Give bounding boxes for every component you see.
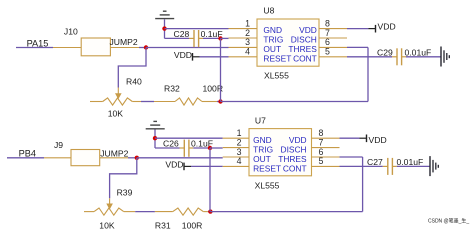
resistor R31 body <box>155 208 208 215</box>
svg-text:R31: R31 <box>155 221 171 229</box>
wire R32 to node B <box>217 101 221 103</box>
junction node D <box>218 36 222 40</box>
power VDD4 <box>165 160 191 171</box>
svg-text:0.01uF: 0.01uF <box>397 157 424 167</box>
svg-text:0.01uF: 0.01uF <box>405 47 432 57</box>
wire GND1 to node C and C28 <box>164 19 166 38</box>
svg-text:CONT: CONT <box>283 163 307 173</box>
wire U7 pin6 stub <box>340 156 363 158</box>
U7 pin 3 <box>223 147 249 157</box>
junction node G <box>153 136 157 140</box>
svg-text:10K: 10K <box>108 108 124 118</box>
ic U8 body <box>257 19 319 66</box>
wire node E to U7 pin3 <box>137 157 223 159</box>
ground GND2 <box>441 47 449 67</box>
svg-text:XL555: XL555 <box>264 71 289 81</box>
wire node D to U8 pin2 <box>221 37 229 39</box>
wire C29 to GND2 <box>406 56 441 58</box>
wire node G to U7 pin1 <box>155 137 223 139</box>
svg-text:XL555: XL555 <box>255 180 280 190</box>
junction node C <box>162 26 166 30</box>
U7 pin 4 <box>223 156 249 166</box>
resistor R32 body <box>154 98 217 105</box>
U8 pin 3 <box>229 37 258 47</box>
wire node A to U8 pin3 <box>146 47 229 49</box>
wire U8 pin6 stub <box>347 46 368 48</box>
wire J10 right lead <box>110 47 139 49</box>
svg-text:VDD: VDD <box>165 160 183 170</box>
svg-text:VDD: VDD <box>174 50 192 60</box>
wire J9 right lead <box>100 157 128 159</box>
svg-text:R39: R39 <box>117 188 133 198</box>
wire node H down to node F <box>209 148 211 212</box>
wire node D down to node B <box>220 38 222 101</box>
svg-text:U8: U8 <box>263 5 274 15</box>
capacitor C28 body <box>189 30 203 47</box>
wire node H to U7 pin2 <box>210 147 223 149</box>
U7 pin 2 <box>223 137 249 147</box>
svg-text:U7: U7 <box>255 115 266 125</box>
wire node B to THRES return <box>221 101 369 103</box>
U7 pin 6 <box>312 147 340 157</box>
U8 pin 6 <box>319 37 347 47</box>
wire R31 to node F <box>208 211 211 213</box>
junction node A <box>144 45 148 49</box>
svg-text:RESET: RESET <box>253 163 281 173</box>
svg-text:PB4: PB4 <box>19 149 36 159</box>
svg-text:100R: 100R <box>182 221 203 229</box>
svg-text:J10: J10 <box>64 27 78 37</box>
wire node A to R40 wiper <box>118 48 146 88</box>
U8 pin 1 <box>229 18 258 28</box>
wire J10 lead to node A <box>139 47 146 49</box>
U7 pin 8 <box>312 128 340 138</box>
power VDD3 <box>360 135 387 145</box>
svg-text:VDD: VDD <box>378 21 396 31</box>
wire C27 to GND4 <box>397 165 430 167</box>
svg-text:C28: C28 <box>174 29 190 39</box>
capacitor C26 body <box>180 140 194 157</box>
connector J10 body <box>81 38 110 56</box>
ground GND4 <box>430 156 438 176</box>
svg-text:5: 5 <box>325 47 330 57</box>
svg-text:C29: C29 <box>377 47 393 57</box>
wire J10 left lead <box>53 47 81 49</box>
potentiometer R39 body <box>84 208 135 215</box>
wire J9 left lead <box>44 157 71 159</box>
svg-text:JUMP2: JUMP2 <box>110 37 138 47</box>
U7 pin 5 <box>312 156 340 166</box>
junction node E <box>135 156 139 160</box>
junction node H <box>208 146 212 150</box>
potentiometer R40 wiper arrow <box>115 88 122 100</box>
svg-text:JUMP2: JUMP2 <box>100 148 128 158</box>
svg-text:CSDN @笔墨_生_: CSDN @笔墨_生_ <box>428 218 469 225</box>
wire C26 to node H <box>193 147 210 149</box>
wire R39 to R31 <box>135 211 155 213</box>
wire U8 pin8 to VDD1 <box>347 28 368 30</box>
wire node F to THRES return <box>210 211 362 213</box>
wire VDD2 to U8 pin4 <box>200 56 229 58</box>
svg-text:J9: J9 <box>54 140 63 150</box>
U8 pin 2 <box>229 28 258 38</box>
wire PB4 stub <box>7 157 44 159</box>
wire U7 pin5 to C27 <box>340 165 383 167</box>
wire VDD4 to U7 pin4 <box>191 165 223 167</box>
wire THRES vertical <box>367 47 369 101</box>
ground GND1 <box>155 11 174 18</box>
wire PA15 stub <box>16 47 53 49</box>
U8 pin 7 <box>319 28 347 38</box>
wire J9 lead to node E <box>128 157 137 159</box>
capacitor C27 body <box>383 158 397 175</box>
wire U8 pin5 to C29 <box>347 56 392 58</box>
connector J9 body <box>71 150 100 166</box>
wire THRES vertical U7 <box>362 157 364 212</box>
wire R40 to R32 <box>141 101 154 103</box>
U7 pin 7 <box>312 137 340 147</box>
capacitor C29 body <box>392 48 406 65</box>
svg-text:RESET: RESET <box>263 53 291 63</box>
wire GND3 to node G and C26 <box>154 130 156 149</box>
U7 pin 1 <box>223 128 249 138</box>
U8 pin 8 <box>319 18 347 28</box>
svg-text:R32: R32 <box>164 83 180 93</box>
wire node C to U8 pin1 <box>165 28 229 30</box>
svg-text:10K: 10K <box>99 221 115 229</box>
wire node C to C28 <box>165 37 190 39</box>
svg-text:VDD: VDD <box>369 135 387 145</box>
svg-text:4: 4 <box>245 47 250 57</box>
junction node B <box>218 99 222 103</box>
ic U7 body <box>249 129 312 176</box>
power VDD1 <box>368 21 395 32</box>
svg-text:4: 4 <box>237 156 242 166</box>
junction node F <box>208 209 212 213</box>
svg-text:C26: C26 <box>163 139 179 149</box>
wire node E to R39 wiper <box>110 158 137 199</box>
U8 pin 4 <box>229 47 258 57</box>
svg-text:R40: R40 <box>126 76 142 86</box>
wire U7 pin8 to VDD3 <box>340 137 360 139</box>
potentiometer R40 body <box>90 98 141 105</box>
svg-text:C27: C27 <box>367 157 383 167</box>
power VDD2 <box>174 50 200 61</box>
wire node G to C26 <box>155 147 180 149</box>
potentiometer R39 wiper arrow <box>106 198 113 209</box>
U8 pin 5 <box>319 47 347 57</box>
svg-text:CONT: CONT <box>293 53 317 63</box>
svg-text:5: 5 <box>319 156 324 166</box>
wire C28 to node D <box>203 37 221 39</box>
ground GND3 <box>146 121 165 128</box>
